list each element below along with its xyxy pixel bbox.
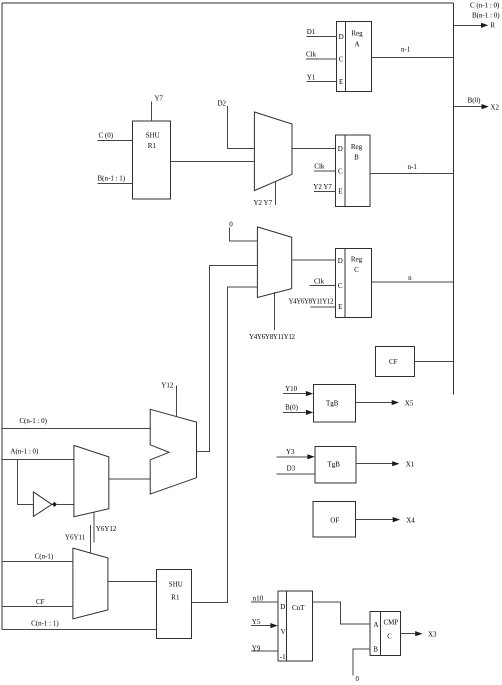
svg-text:Y12: Y12: [161, 381, 174, 389]
svg-text:A: A: [374, 621, 379, 629]
svg-text:CF: CF: [389, 358, 398, 366]
wire Y3 input arrow into TgB: [277, 448, 315, 460]
register Reg A: [337, 21, 372, 91]
wire SHU R1 (bottom) output up to mux M2 input: [191, 287, 257, 603]
wire Clk input to Reg C pin C: [310, 277, 336, 285]
svg-text:X1: X1: [406, 460, 415, 468]
wire mux M5 output to mux M3: [109, 478, 150, 480]
node D2 input to mux M1: [218, 100, 255, 149]
svg-text:B(0): B(0): [285, 404, 299, 412]
svg-text:-1: -1: [280, 653, 286, 661]
svg-text:D: D: [338, 257, 343, 265]
svg-text:Y3: Y3: [286, 448, 295, 456]
shifter SHU R1 (bottom): [156, 569, 191, 638]
svg-text:E: E: [338, 303, 342, 311]
wire Y9 input to CnT: [251, 645, 278, 653]
svg-text:n-1: n-1: [401, 45, 411, 53]
svg-text:D1: D1: [307, 28, 316, 36]
wire CF output to bus: [414, 360, 453, 362]
svg-text:Clk: Clk: [306, 51, 317, 59]
svg-text:C(n-1): C(n-1): [35, 552, 54, 560]
mux M1 (selects D2 / SHU out): [254, 112, 292, 191]
svg-text:Y2 Y7: Y2 Y7: [313, 183, 332, 191]
svg-text:B: B: [373, 645, 378, 653]
counter CnT: [278, 591, 313, 661]
svg-text:C (n-1 : 0): C (n-1 : 0): [470, 2, 500, 10]
wire Reg B output n-1 to bus: [370, 163, 453, 174]
svg-text:C: C: [387, 633, 392, 641]
mux M6 (C(n-1) / CF): [73, 548, 108, 619]
svg-text:B(n-1 : 0): B(n-1 : 0): [472, 11, 500, 19]
register Reg B: [336, 135, 370, 206]
wire mux M3 select Y12: [161, 381, 176, 416]
svg-text:B: B: [354, 154, 359, 162]
svg-text:C: C: [354, 266, 359, 274]
svg-text:X4: X4: [406, 516, 415, 524]
block TgB (lower, Y3/D3 inputs): [315, 446, 356, 482]
svg-text:CF: CF: [36, 598, 45, 606]
wire Reg A output n-1 to bus: [371, 45, 453, 57]
svg-text:Y6Y12: Y6Y12: [96, 525, 117, 533]
wire mux M3 output up to mux M2 input: [197, 265, 258, 451]
svg-text:Reg: Reg: [351, 256, 363, 264]
comparator CMP C: [370, 612, 400, 656]
wire input A(n-1:0) to mux M5: [2, 448, 74, 460]
svg-text:X5: X5: [405, 399, 414, 407]
svg-text:D2: D2: [218, 100, 227, 108]
wire Y10 input arrow into TgB: [283, 385, 313, 396]
svg-text:X2: X2: [490, 104, 499, 112]
wire Y2 Y7 input to Reg B pin E: [313, 183, 335, 191]
shifter SHU R1 (top): [132, 121, 170, 199]
svg-text:R: R: [490, 22, 495, 30]
mux M2 (feeds Reg C): [257, 227, 291, 298]
svg-text:n-1: n-1: [408, 163, 418, 171]
svg-text:Y4Y6Y8Y11Y12: Y4Y6Y8Y11Y12: [249, 333, 296, 341]
wire mux M6 output to SHU R1 (bottom): [108, 581, 156, 583]
svg-text:Reg: Reg: [351, 143, 363, 151]
wire Y1 input to Reg A pin E: [307, 73, 337, 81]
node constant 0 input to mux M2: [229, 221, 257, 242]
svg-text:C: C: [339, 55, 344, 63]
wire SHU R1 output to mux M1: [171, 160, 255, 162]
wire mux M1 select Y2 Y7: [254, 182, 276, 207]
svg-text:B(n-1 : 1): B(n-1 : 1): [98, 175, 126, 183]
svg-text:C(n-1 : 0): C(n-1 : 0): [19, 417, 47, 425]
svg-text:A(n-1 : 0): A(n-1 : 0): [10, 448, 39, 456]
svg-text:0: 0: [229, 221, 233, 229]
wire bus output arrow to R: [454, 22, 496, 30]
inverter (buffer with dot): [33, 492, 57, 517]
svg-text:n: n: [408, 274, 412, 282]
wire branch of A(n-1:0) down to inverter: [17, 460, 33, 505]
svg-text:D3: D3: [287, 464, 296, 472]
wire constant 0 input to CMP pin B: [353, 649, 370, 683]
svg-text:C (0): C (0): [99, 131, 114, 139]
svg-text:B(0): B(0): [468, 97, 482, 105]
wire input B(n-1:1) to SHU R1: [98, 175, 133, 184]
svg-text:X3: X3: [428, 631, 437, 639]
frame: top border line: [2, 2, 454, 4]
svg-text:R1: R1: [148, 142, 157, 150]
wire inverter output to mux M5: [57, 503, 74, 505]
svg-text:Y2 Y7: Y2 Y7: [254, 199, 273, 207]
wire input CF to mux M6: [2, 598, 73, 607]
mux M3 (ALU-notch symbol, select Y12): [150, 409, 196, 494]
block OF flag: [313, 502, 356, 537]
net: right vertical bus: [453, 3, 455, 394]
wire mux M2 output to Reg C pin D: [292, 259, 336, 261]
svg-text:E: E: [338, 188, 342, 196]
svg-text:TgB: TgB: [326, 399, 339, 407]
svg-text:SHU: SHU: [169, 581, 183, 589]
svg-text:TgB: TgB: [328, 460, 341, 468]
svg-text:D: D: [280, 603, 285, 611]
wire Reg C output n to bus: [371, 274, 453, 282]
wire input C(0) to SHU R1: [98, 131, 133, 140]
svg-text:C(n-1 : 1): C(n-1 : 1): [31, 619, 59, 627]
svg-text:D: D: [339, 33, 344, 41]
wire bus output B(0) arrow to X2: [454, 97, 500, 112]
wire Y4Y6Y8Y11Y12 input to Reg C pin E: [289, 298, 336, 307]
svg-text:Y7: Y7: [155, 95, 164, 103]
wire D1 input to Reg A pin D: [307, 28, 337, 36]
wire input C(n-1:0) to mux M3: [2, 417, 150, 428]
svg-text:CMP: CMP: [384, 618, 399, 626]
wire input C(n-1) to mux M6: [2, 552, 73, 561]
svg-text:Clk: Clk: [314, 277, 325, 285]
wire mux M6 select Y6Y11: [65, 525, 91, 553]
node Y7 select stub of SHU R1: [151, 95, 163, 122]
svg-text:CnT: CnT: [292, 604, 305, 612]
svg-text:0: 0: [356, 675, 360, 683]
wire mux M1 output to Reg B pin D: [292, 147, 336, 149]
block TgB (upper, Y10/B(0) inputs): [313, 384, 355, 422]
wire mux M2 select Y4Y6Y8Y11Y12: [249, 292, 296, 341]
svg-text:Y6Y11: Y6Y11: [65, 534, 86, 542]
frame: left border line: [1, 3, 3, 629]
svg-text:Clk: Clk: [314, 162, 325, 170]
wire mux M5 select Y6Y12: [94, 512, 117, 543]
wire OF output arrow to X4: [356, 516, 416, 524]
svg-text:Y10: Y10: [285, 385, 298, 393]
svg-text:C: C: [338, 168, 343, 176]
svg-text:V: V: [281, 628, 286, 636]
svg-text:Y4Y6Y8Y11Y12: Y4Y6Y8Y11Y12: [289, 298, 335, 306]
mux M5 (A / inverted A): [74, 445, 109, 516]
block CF flag: [375, 346, 414, 376]
svg-text:Y5: Y5: [252, 618, 261, 626]
svg-text:OF: OF: [330, 516, 339, 524]
svg-text:D: D: [338, 145, 343, 153]
svg-text:E: E: [339, 78, 343, 86]
wire TgB output arrow to X5: [355, 399, 414, 407]
svg-text:R1: R1: [171, 594, 180, 602]
svg-text:C: C: [338, 282, 343, 290]
svg-text:A: A: [354, 40, 359, 48]
wire Clk input to Reg A pin C: [306, 51, 337, 59]
wire D3 input into TgB: [276, 464, 315, 474]
wire CMP output arrow to X3: [401, 631, 437, 639]
register Reg C: [336, 248, 372, 317]
wire input C(n-1:1) to shifter SHU R1 (bottom): [2, 619, 156, 629]
svg-text:SHU: SHU: [146, 131, 160, 139]
wire n10 input to CnT pin D: [251, 595, 278, 603]
svg-text:Reg: Reg: [351, 30, 363, 38]
wire B(0) input arrow into TgB: [283, 404, 313, 415]
svg-text:Y1: Y1: [307, 73, 316, 81]
wire Clk input to Reg B pin C: [314, 162, 336, 171]
wire TgB output arrow to X1: [356, 460, 415, 468]
wire CnT output to comparator CMP pin A: [313, 602, 371, 624]
wire Y5 input arrow to CnT pin V: [251, 618, 278, 628]
